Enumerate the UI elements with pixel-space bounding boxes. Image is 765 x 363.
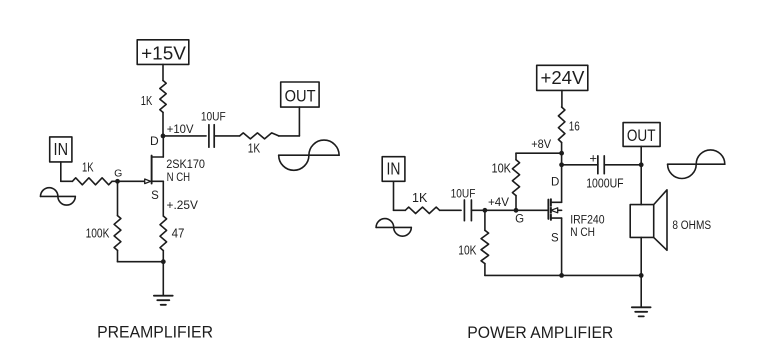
- svg-text:16: 16: [569, 119, 580, 133]
- svg-text:10K: 10K: [458, 243, 477, 257]
- svg-text:OUT: OUT: [285, 86, 316, 105]
- svg-text:S: S: [151, 190, 159, 202]
- svg-text:47: 47: [172, 227, 185, 241]
- svg-text:OUT: OUT: [627, 127, 656, 145]
- svg-text:+4V: +4V: [488, 195, 509, 209]
- svg-text:S: S: [551, 233, 559, 245]
- svg-text:+.25V: +.25V: [167, 200, 199, 212]
- svg-text:1K: 1K: [248, 141, 261, 156]
- svg-text:G: G: [515, 213, 524, 225]
- svg-text:+24V: +24V: [541, 67, 586, 88]
- svg-text:G: G: [114, 167, 122, 179]
- svg-text:N CH: N CH: [570, 225, 595, 239]
- svg-text:1000UF: 1000UF: [586, 177, 624, 191]
- svg-text:D: D: [150, 134, 159, 148]
- svg-text:PREAMPLIFIER: PREAMPLIFIER: [97, 323, 213, 342]
- svg-text:1K: 1K: [141, 93, 153, 108]
- svg-text:IN: IN: [387, 159, 401, 179]
- svg-text:D: D: [551, 176, 559, 188]
- svg-text:+15V: +15V: [141, 43, 186, 64]
- svg-text:N CH: N CH: [167, 170, 191, 184]
- svg-text:2SK170: 2SK170: [166, 157, 205, 171]
- svg-text:1K: 1K: [82, 159, 94, 174]
- svg-text:IN: IN: [54, 139, 69, 159]
- svg-text:100K: 100K: [86, 227, 110, 241]
- svg-text:+8V: +8V: [531, 137, 551, 151]
- svg-text:POWER AMPLIFIER: POWER AMPLIFIER: [467, 323, 613, 342]
- svg-text:+: +: [589, 151, 597, 166]
- svg-text:10K: 10K: [492, 162, 512, 176]
- svg-text:8 OHMS: 8 OHMS: [672, 218, 711, 232]
- svg-text:1K: 1K: [412, 190, 428, 205]
- svg-text:+10V: +10V: [167, 122, 194, 136]
- svg-text:10UF: 10UF: [201, 110, 226, 124]
- svg-text:10UF: 10UF: [451, 186, 476, 200]
